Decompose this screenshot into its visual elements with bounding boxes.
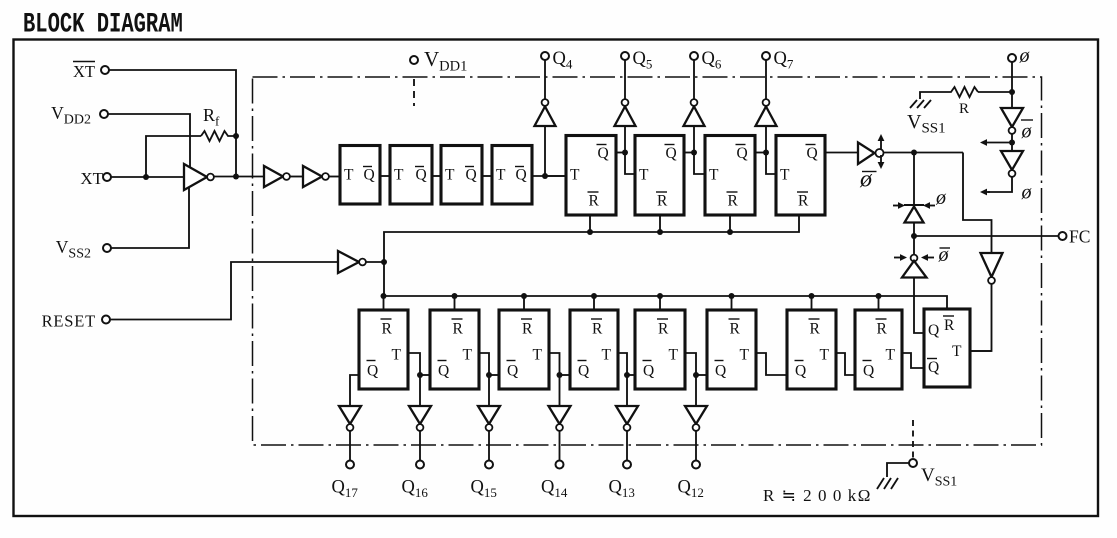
svg-text:R: R [657,193,668,210]
svg-text:Q: Q [807,145,818,162]
svg-text:T: T [669,347,679,364]
svg-text:T: T [780,167,790,184]
svg-text:Q: Q [795,363,806,380]
svg-text:R: R [730,321,741,338]
svg-text:Q: Q [364,167,375,184]
svg-text:T: T [392,347,402,364]
svg-text:R ≒ 2 0 0 kΩ: R ≒ 2 0 0 kΩ [763,486,872,505]
svg-text:ø: ø [1021,121,1033,143]
svg-text:T: T [602,347,612,364]
svg-text:ø: ø [1019,45,1031,67]
svg-text:T: T [886,347,896,364]
svg-text:BLOCK DIAGRAM: BLOCK DIAGRAM [23,10,183,41]
svg-text:Q: Q [643,363,654,380]
svg-text:T: T [740,347,750,364]
svg-text:Q: Q [928,359,939,376]
svg-text:T: T [952,343,962,360]
svg-text:FC: FC [1069,227,1090,247]
svg-text:ø: ø [935,187,947,209]
svg-text:Q: Q [438,363,449,380]
svg-text:Q: Q [516,167,527,184]
svg-text:T: T [496,167,506,184]
svg-text:T: T [820,347,830,364]
svg-text:ø: ø [859,167,873,193]
svg-text:Q: Q [367,363,378,380]
svg-text:R: R [728,193,739,210]
svg-text:R: R [589,193,600,210]
svg-text:Q: Q [863,363,874,380]
svg-text:Q: Q [715,363,726,380]
svg-text:R: R [877,321,888,338]
svg-text:Q: Q [466,167,477,184]
svg-text:Q: Q [507,363,518,380]
svg-text:T: T [533,347,543,364]
svg-text:Q: Q [416,167,427,184]
svg-text:Q: Q [578,363,589,380]
svg-text:T: T [570,167,580,184]
svg-text:R: R [453,321,464,338]
svg-text:R: R [382,321,393,338]
svg-text:T: T [639,167,649,184]
svg-text:XT: XT [80,169,103,188]
svg-text:T: T [463,347,473,364]
svg-text:Q: Q [928,322,939,339]
svg-text:T: T [445,167,455,184]
svg-text:T: T [709,167,719,184]
svg-text:Q: Q [598,145,609,162]
svg-text:R: R [658,321,669,338]
svg-text:R: R [959,101,969,117]
svg-text:T: T [394,167,404,184]
svg-text:R: R [522,321,533,338]
svg-text:R: R [944,317,955,334]
svg-text:R: R [592,321,603,338]
svg-text:XT: XT [73,62,95,81]
svg-text:Q: Q [666,145,677,162]
svg-text:RESET: RESET [42,312,96,331]
svg-text:R: R [810,321,821,338]
svg-text:R: R [798,193,809,210]
svg-text:ø: ø [1021,182,1033,204]
svg-text:T: T [344,167,354,184]
svg-text:Q: Q [737,145,748,162]
